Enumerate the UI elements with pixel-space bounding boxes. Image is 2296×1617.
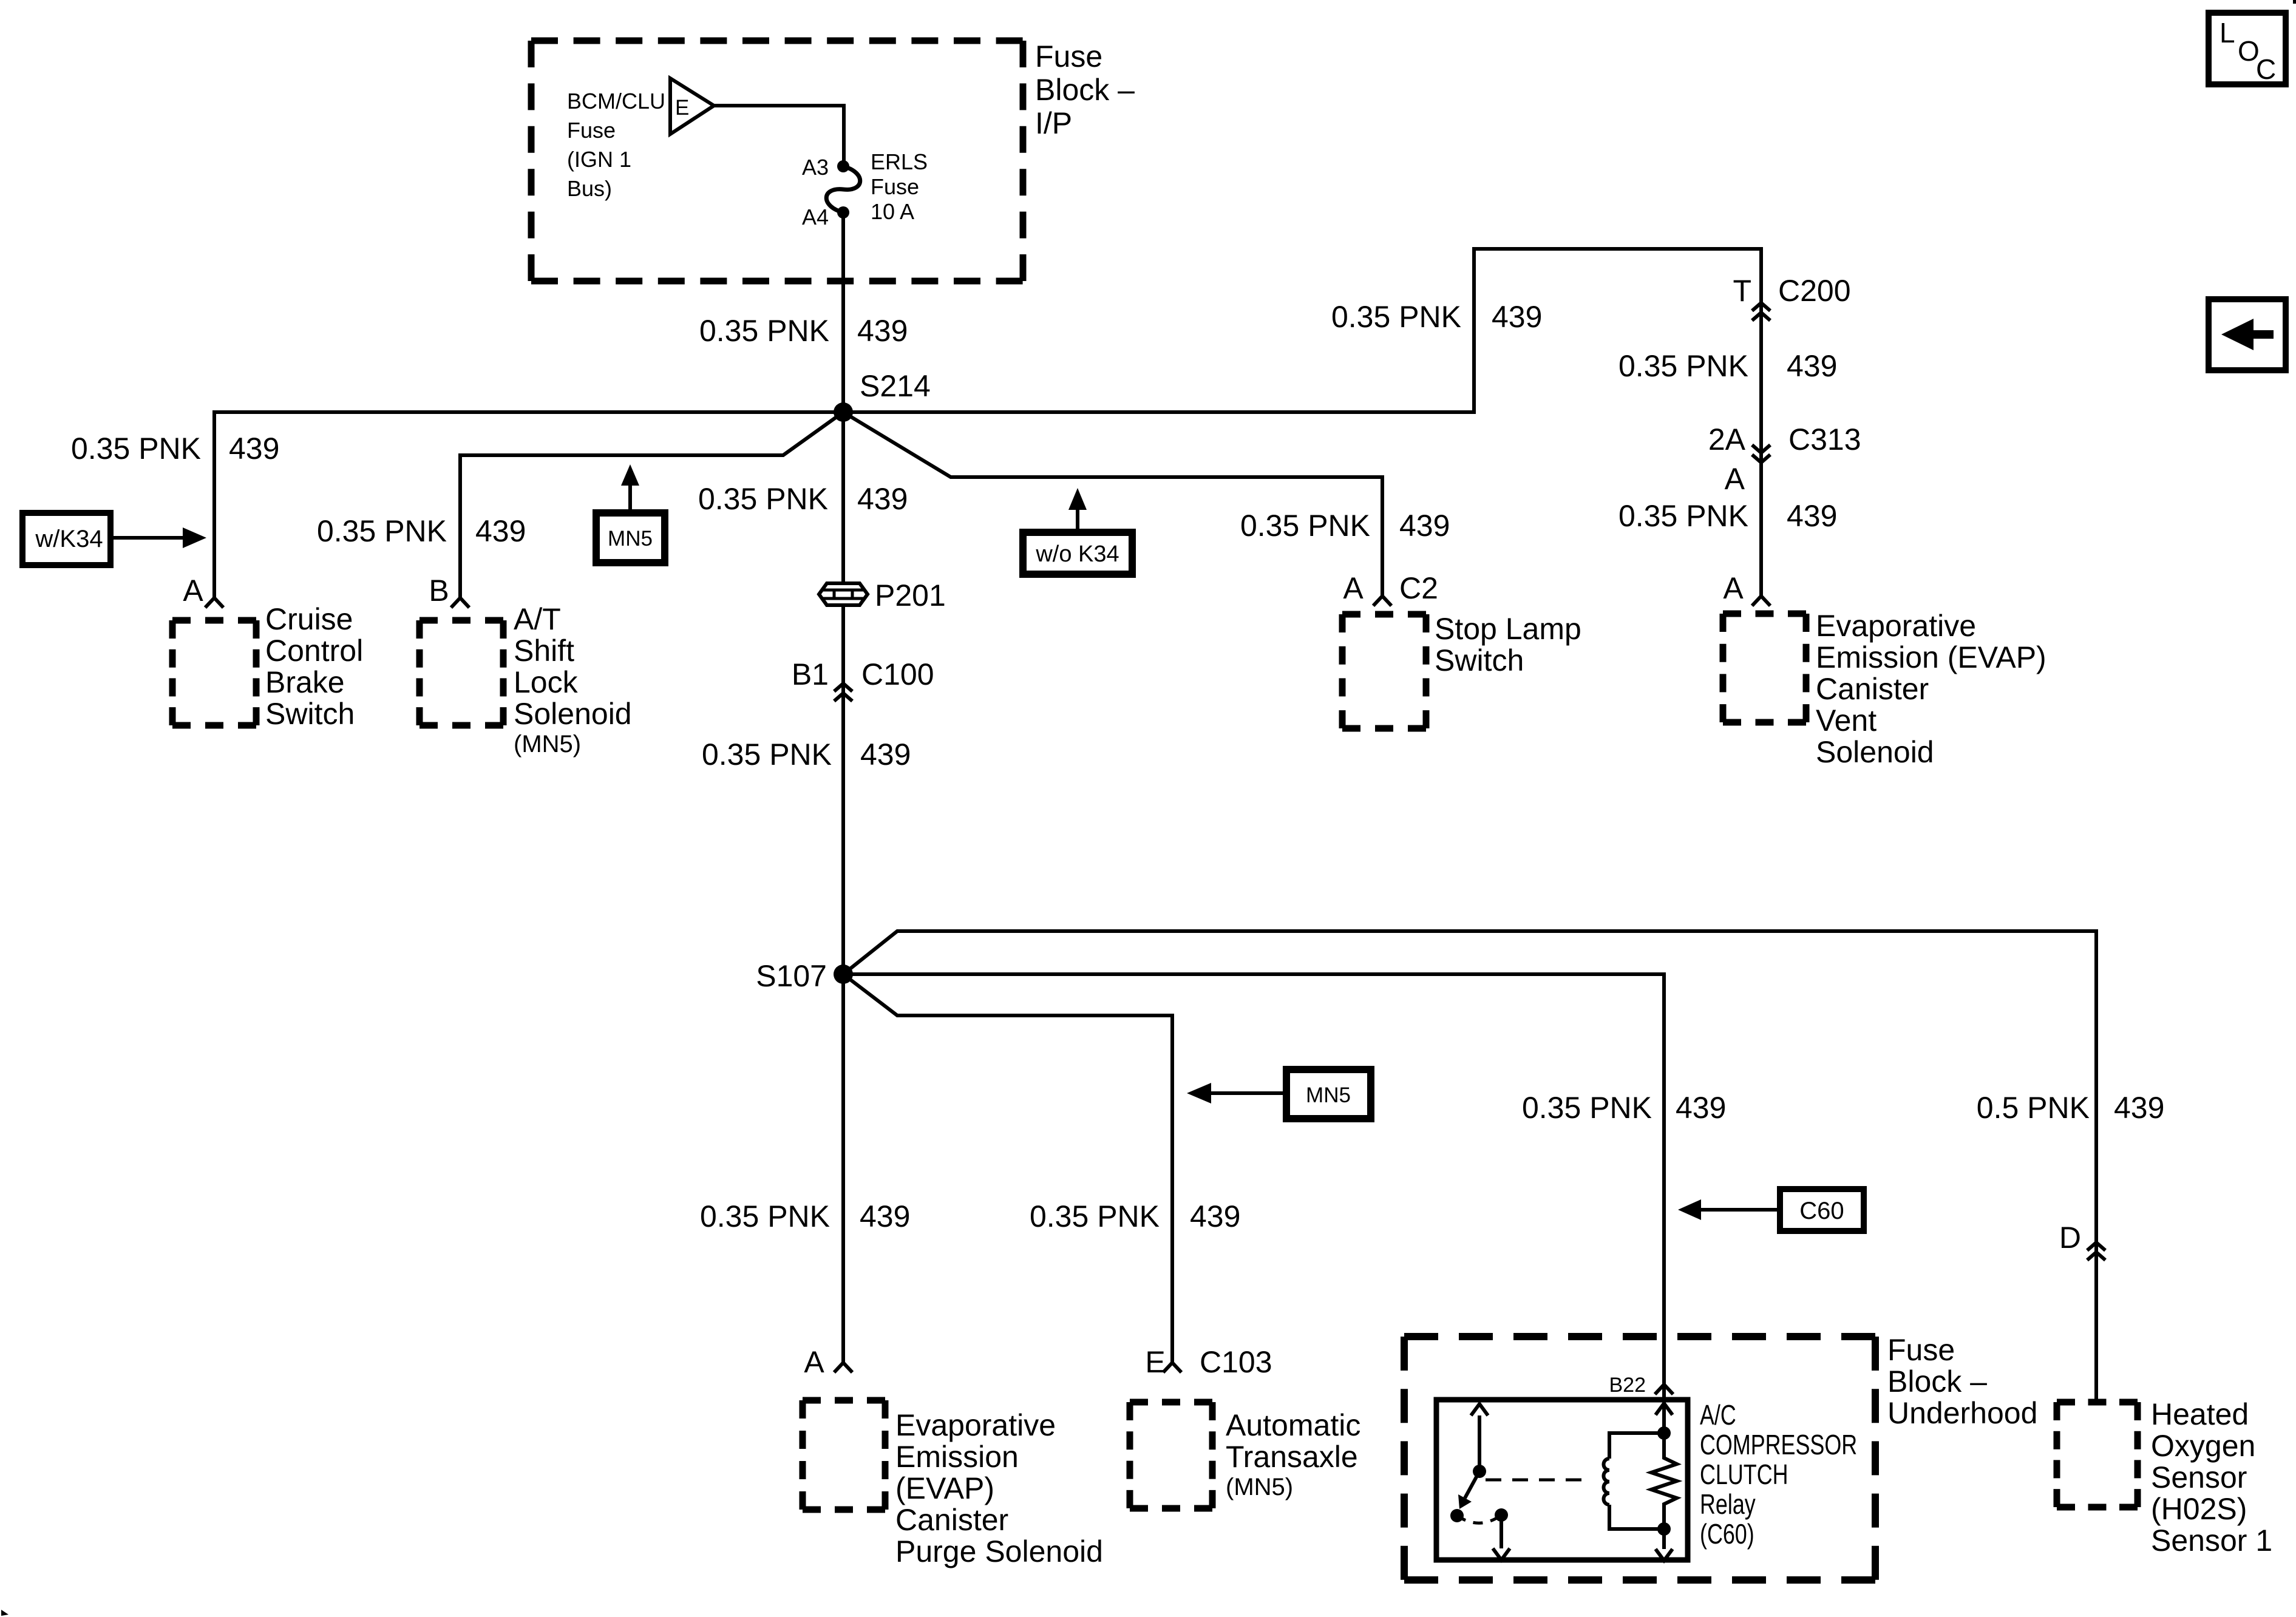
- wire label 0.35 PNK 439 purge: [700, 1199, 910, 1233]
- wire label 0.35 PNK 439 vent: [1618, 349, 1837, 383]
- svg-text:B22: B22: [1609, 1374, 1646, 1397]
- svg-text:L: L: [2220, 17, 2235, 49]
- w/o K34 box: [1023, 532, 1132, 574]
- svg-text:Switch: Switch: [1435, 643, 1524, 677]
- relay output arrow down: [1656, 1529, 1673, 1561]
- svg-text:0.35 PNK: 0.35 PNK: [1030, 1199, 1160, 1233]
- BCM/CLU fuse label: [567, 89, 665, 201]
- svg-text:(C60): (C60): [1700, 1519, 1754, 1550]
- connector B shift lock: [451, 598, 469, 608]
- fuse block I/P dashed box: [531, 41, 1023, 281]
- svg-text:C200: C200: [1778, 274, 1851, 308]
- svg-text:BCM/CLU: BCM/CLU: [567, 89, 665, 114]
- svg-text:439: 439: [1399, 509, 1450, 543]
- svg-text:2A: 2A: [1708, 422, 1746, 456]
- heated oxygen sensor label: [2151, 1397, 2272, 1558]
- back arrow legend box: [2209, 299, 2286, 370]
- svg-text:C60: C60: [1799, 1198, 1844, 1224]
- svg-text:S214: S214: [860, 369, 931, 403]
- svg-text:A: A: [183, 574, 203, 608]
- svg-text:Heated: Heated: [2151, 1397, 2249, 1431]
- svg-text:Solenoid: Solenoid: [514, 697, 632, 731]
- svg-text:0.5 PNK: 0.5 PNK: [1977, 1091, 2090, 1125]
- fuse block I/P label: [1035, 39, 1135, 140]
- svg-text:439: 439: [2114, 1091, 2164, 1125]
- svg-text:Emission (EVAP): Emission (EVAP): [1816, 640, 2046, 674]
- svg-text:0.35 PNK: 0.35 PNK: [1618, 499, 1748, 533]
- svg-text:439: 439: [1787, 349, 1837, 383]
- wire label 0.35 PNK 439 above S107: [702, 737, 911, 771]
- svg-text:Fuse: Fuse: [1035, 39, 1102, 73]
- svg-text:Evaporative: Evaporative: [1816, 609, 1976, 643]
- fuse block underhood label: [1887, 1333, 2037, 1430]
- svg-text:Oxygen: Oxygen: [2151, 1429, 2255, 1463]
- svg-text:A3: A3: [802, 155, 829, 180]
- svg-text:C2: C2: [1399, 571, 1438, 605]
- EVAP canister vent solenoid dashed box: [1723, 611, 1806, 617]
- wire label 0.35 PNK 439 at corner: [1331, 300, 1542, 334]
- connector A vent solenoid: [1723, 571, 1770, 606]
- svg-text:Block –: Block –: [1887, 1364, 1987, 1398]
- wire S107 to C103 branch: [843, 974, 1172, 1363]
- svg-text:C103: C103: [1200, 1345, 1272, 1379]
- MN5 flag arrow up: [621, 464, 639, 513]
- svg-text:Lock: Lock: [514, 665, 579, 699]
- svg-text:A: A: [1725, 462, 1745, 496]
- wire S107 down to purge solenoid: [841, 974, 845, 1363]
- svg-text:CLUTCH: CLUTCH: [1700, 1459, 1788, 1490]
- connector B22: [1655, 1385, 1673, 1394]
- page corner mark bottom left: [1, 1610, 8, 1616]
- wire label 0.35 PNK 439 above S214: [699, 314, 908, 348]
- relay contact dot right: [1495, 1508, 1508, 1522]
- wire label 0.35 PNK 439 vent lower: [1618, 499, 1837, 533]
- wire from triangle to fuse: [714, 106, 844, 163]
- svg-text:Cruise: Cruise: [265, 602, 353, 636]
- cruise control brake switch label: [265, 602, 363, 731]
- svg-text:w/o K34: w/o K34: [1035, 541, 1119, 567]
- wire S214 left to cruise branch: [214, 412, 843, 598]
- grommet P201: [819, 578, 946, 612]
- wire fuse to S214: [841, 212, 845, 412]
- svg-text:439: 439: [1492, 300, 1542, 334]
- A/T shift lock solenoid dashed box: [419, 617, 503, 624]
- A/C compressor clutch relay box: [1436, 1400, 1688, 1560]
- svg-text:0.35 PNK: 0.35 PNK: [1240, 509, 1370, 543]
- relay contact dot left: [1450, 1509, 1464, 1522]
- relay coil: [1603, 1433, 1664, 1529]
- svg-text:A4: A4: [802, 205, 829, 229]
- connector A purge: [804, 1345, 852, 1379]
- connector C313: [1708, 422, 1861, 496]
- automatic transaxle label: [1226, 1408, 1360, 1500]
- svg-text:COMPRESSOR: COMPRESSOR: [1700, 1429, 1857, 1460]
- wire P201 to S107: [841, 605, 845, 974]
- svg-text:I/P: I/P: [1035, 106, 1072, 140]
- svg-text:A: A: [1723, 571, 1744, 605]
- wire label 0.35 PNK 439 above P201: [698, 482, 908, 516]
- svg-text:MN5: MN5: [1306, 1083, 1351, 1107]
- svg-text:Shift: Shift: [514, 634, 574, 668]
- fuse ERLS symbol: [826, 160, 860, 219]
- connector C200: [1733, 274, 1850, 320]
- relay B22 internal arrow: [1656, 1403, 1673, 1415]
- svg-text:A: A: [804, 1345, 824, 1379]
- wire S214 right to C200 corner: [843, 249, 1761, 596]
- svg-text:C: C: [2256, 53, 2276, 85]
- wire S214 to shift lock branch: [460, 412, 843, 598]
- EVAP canister purge solenoid label: [895, 1408, 1103, 1568]
- wire label 0.35 PNK 439 relay: [1522, 1091, 1726, 1125]
- svg-text:(EVAP): (EVAP): [895, 1471, 994, 1505]
- svg-text:439: 439: [857, 482, 908, 516]
- svg-text:0.35 PNK: 0.35 PNK: [699, 314, 829, 348]
- EVAP canister vent solenoid label: [1816, 609, 2046, 769]
- svg-text:439: 439: [860, 737, 911, 771]
- svg-text:ERLS: ERLS: [871, 149, 928, 174]
- svg-text:439: 439: [1787, 499, 1837, 533]
- svg-text:0.35 PNK: 0.35 PNK: [702, 737, 832, 771]
- svg-text:Stop Lamp: Stop Lamp: [1435, 612, 1581, 646]
- relay resistor: [1651, 1433, 1677, 1529]
- svg-text:B: B: [429, 574, 449, 608]
- svg-text:Bus): Bus): [567, 176, 612, 201]
- splice S214: [834, 369, 931, 422]
- svg-text:439: 439: [860, 1199, 910, 1233]
- svg-text:Brake: Brake: [265, 665, 345, 699]
- svg-text:Fuse: Fuse: [567, 118, 616, 143]
- svg-text:Transaxle: Transaxle: [1226, 1440, 1358, 1474]
- relay movable arm: [1458, 1471, 1479, 1509]
- wire label 0.35 PNK 439 C103: [1030, 1199, 1240, 1233]
- stop lamp switch dashed box: [1342, 611, 1426, 618]
- MN5 flag box upper: [596, 513, 665, 563]
- relay top node dot: [1657, 1426, 1671, 1440]
- svg-text:439: 439: [1676, 1091, 1726, 1125]
- wire S214 down to P201: [841, 412, 845, 583]
- svg-text:E: E: [1145, 1345, 1165, 1379]
- relay bottom node dot: [1657, 1522, 1671, 1536]
- relay pivot dot: [1473, 1465, 1486, 1478]
- wire S107 to HO2S branch: [843, 931, 2096, 1402]
- svg-text:0.35 PNK: 0.35 PNK: [1618, 349, 1748, 383]
- relay contact up arrow: [1471, 1404, 1488, 1471]
- svg-text:A/T: A/T: [514, 602, 561, 636]
- w/K34 arrow: [110, 527, 206, 548]
- svg-text:Evaporative: Evaporative: [895, 1408, 1056, 1442]
- svg-text:0.35 PNK: 0.35 PNK: [317, 514, 447, 548]
- svg-text:439: 439: [857, 314, 908, 348]
- svg-text:Relay: Relay: [1700, 1489, 1756, 1520]
- svg-text:Control: Control: [265, 634, 363, 668]
- relay lower contact arrow down: [1493, 1515, 1510, 1560]
- ERLS fuse label: [871, 149, 928, 224]
- svg-text:Purge Solenoid: Purge Solenoid: [895, 1534, 1103, 1568]
- heated oxygen sensor dashed box: [2057, 1399, 2138, 1406]
- svg-text:w/K34: w/K34: [35, 526, 103, 552]
- MN5 flag box lower: [1286, 1070, 1371, 1119]
- svg-text:Sensor 1: Sensor 1: [2151, 1524, 2272, 1558]
- svg-text:Emission: Emission: [895, 1440, 1019, 1474]
- svg-text:B1: B1: [792, 657, 829, 691]
- connector D HO2S: [2059, 1221, 2105, 1260]
- C60 flag box: [1780, 1189, 1864, 1231]
- MN5 flag arrow left: [1187, 1083, 1286, 1103]
- cruise control brake switch dashed box: [172, 617, 256, 624]
- svg-text:C100: C100: [861, 657, 934, 691]
- svg-text:A/C: A/C: [1700, 1400, 1736, 1431]
- bus triangle E: [670, 78, 714, 134]
- svg-text:439: 439: [1190, 1199, 1240, 1233]
- svg-text:Switch: Switch: [265, 697, 355, 731]
- svg-text:Canister: Canister: [895, 1503, 1008, 1537]
- connector B1 C100: [792, 657, 934, 701]
- svg-text:Sensor: Sensor: [2151, 1460, 2247, 1494]
- svg-text:0.35 PNK: 0.35 PNK: [1331, 300, 1461, 334]
- wire label 0.35 PNK 439 stop lamp: [1240, 509, 1450, 543]
- svg-text:MN5: MN5: [608, 527, 653, 551]
- splice S107: [756, 959, 853, 993]
- page corner mark top right: [2293, 0, 2296, 4]
- svg-text:Vent: Vent: [1816, 703, 1877, 737]
- C60 flag arrow left: [1678, 1199, 1780, 1220]
- A/C compressor clutch relay label: [1700, 1400, 1857, 1550]
- A/T shift lock solenoid label: [514, 602, 632, 758]
- svg-text:D: D: [2059, 1221, 2081, 1255]
- svg-text:A: A: [1343, 571, 1364, 605]
- svg-text:(MN5): (MN5): [514, 731, 581, 758]
- svg-text:0.35 PNK: 0.35 PNK: [71, 432, 201, 466]
- svg-text:Block –: Block –: [1035, 73, 1135, 107]
- svg-text:C313: C313: [1788, 422, 1861, 456]
- connector E C103: [1145, 1345, 1272, 1379]
- w/o K34 arrow up: [1068, 488, 1087, 532]
- svg-text:Fuse: Fuse: [871, 174, 919, 199]
- svg-text:0.35 PNK: 0.35 PNK: [700, 1199, 830, 1233]
- svg-text:P201: P201: [875, 578, 946, 612]
- svg-text:Solenoid: Solenoid: [1816, 735, 1934, 769]
- svg-text:E: E: [675, 96, 689, 120]
- svg-text:(MN5): (MN5): [1226, 1474, 1293, 1500]
- wire label 0.35 PNK 439 shift lock: [317, 514, 526, 548]
- svg-text:Automatic: Automatic: [1226, 1408, 1360, 1442]
- EVAP canister purge solenoid dashed box: [803, 1397, 885, 1404]
- svg-text:(IGN 1: (IGN 1: [567, 147, 631, 172]
- svg-text:Canister: Canister: [1816, 672, 1929, 706]
- stop lamp switch label: [1435, 612, 1581, 677]
- svg-text:439: 439: [475, 514, 526, 548]
- connector A C2 stop lamp: [1343, 571, 1438, 606]
- fuse block underhood dashed box: [1404, 1333, 1875, 1340]
- svg-text:(H02S): (H02S): [2151, 1492, 2247, 1526]
- svg-text:Fuse: Fuse: [1887, 1333, 1955, 1367]
- wire label 0.35 PNK 439 cruise: [71, 432, 279, 466]
- svg-text:0.35 PNK: 0.35 PNK: [698, 482, 828, 516]
- relay dashed throw arc: [1457, 1515, 1501, 1523]
- LOC legend box: [2209, 13, 2286, 85]
- svg-text:S107: S107: [756, 959, 827, 993]
- wire S107 to relay branch: [843, 974, 1664, 1433]
- svg-text:439: 439: [229, 432, 279, 466]
- svg-text:T: T: [1733, 274, 1751, 308]
- w/K34 box: [22, 513, 110, 565]
- relay coil drive dashed link: [1486, 1479, 1591, 1482]
- connector A cruise: [205, 598, 223, 608]
- wire label 0.5 PNK 439 HO2S: [1977, 1091, 2165, 1125]
- wire S214 to stop lamp branch: [843, 412, 1382, 596]
- svg-text:10 A: 10 A: [871, 199, 914, 224]
- automatic transaxle dashed box: [1130, 1399, 1212, 1406]
- svg-text:0.35 PNK: 0.35 PNK: [1522, 1091, 1652, 1125]
- svg-text:Underhood: Underhood: [1887, 1396, 2037, 1430]
